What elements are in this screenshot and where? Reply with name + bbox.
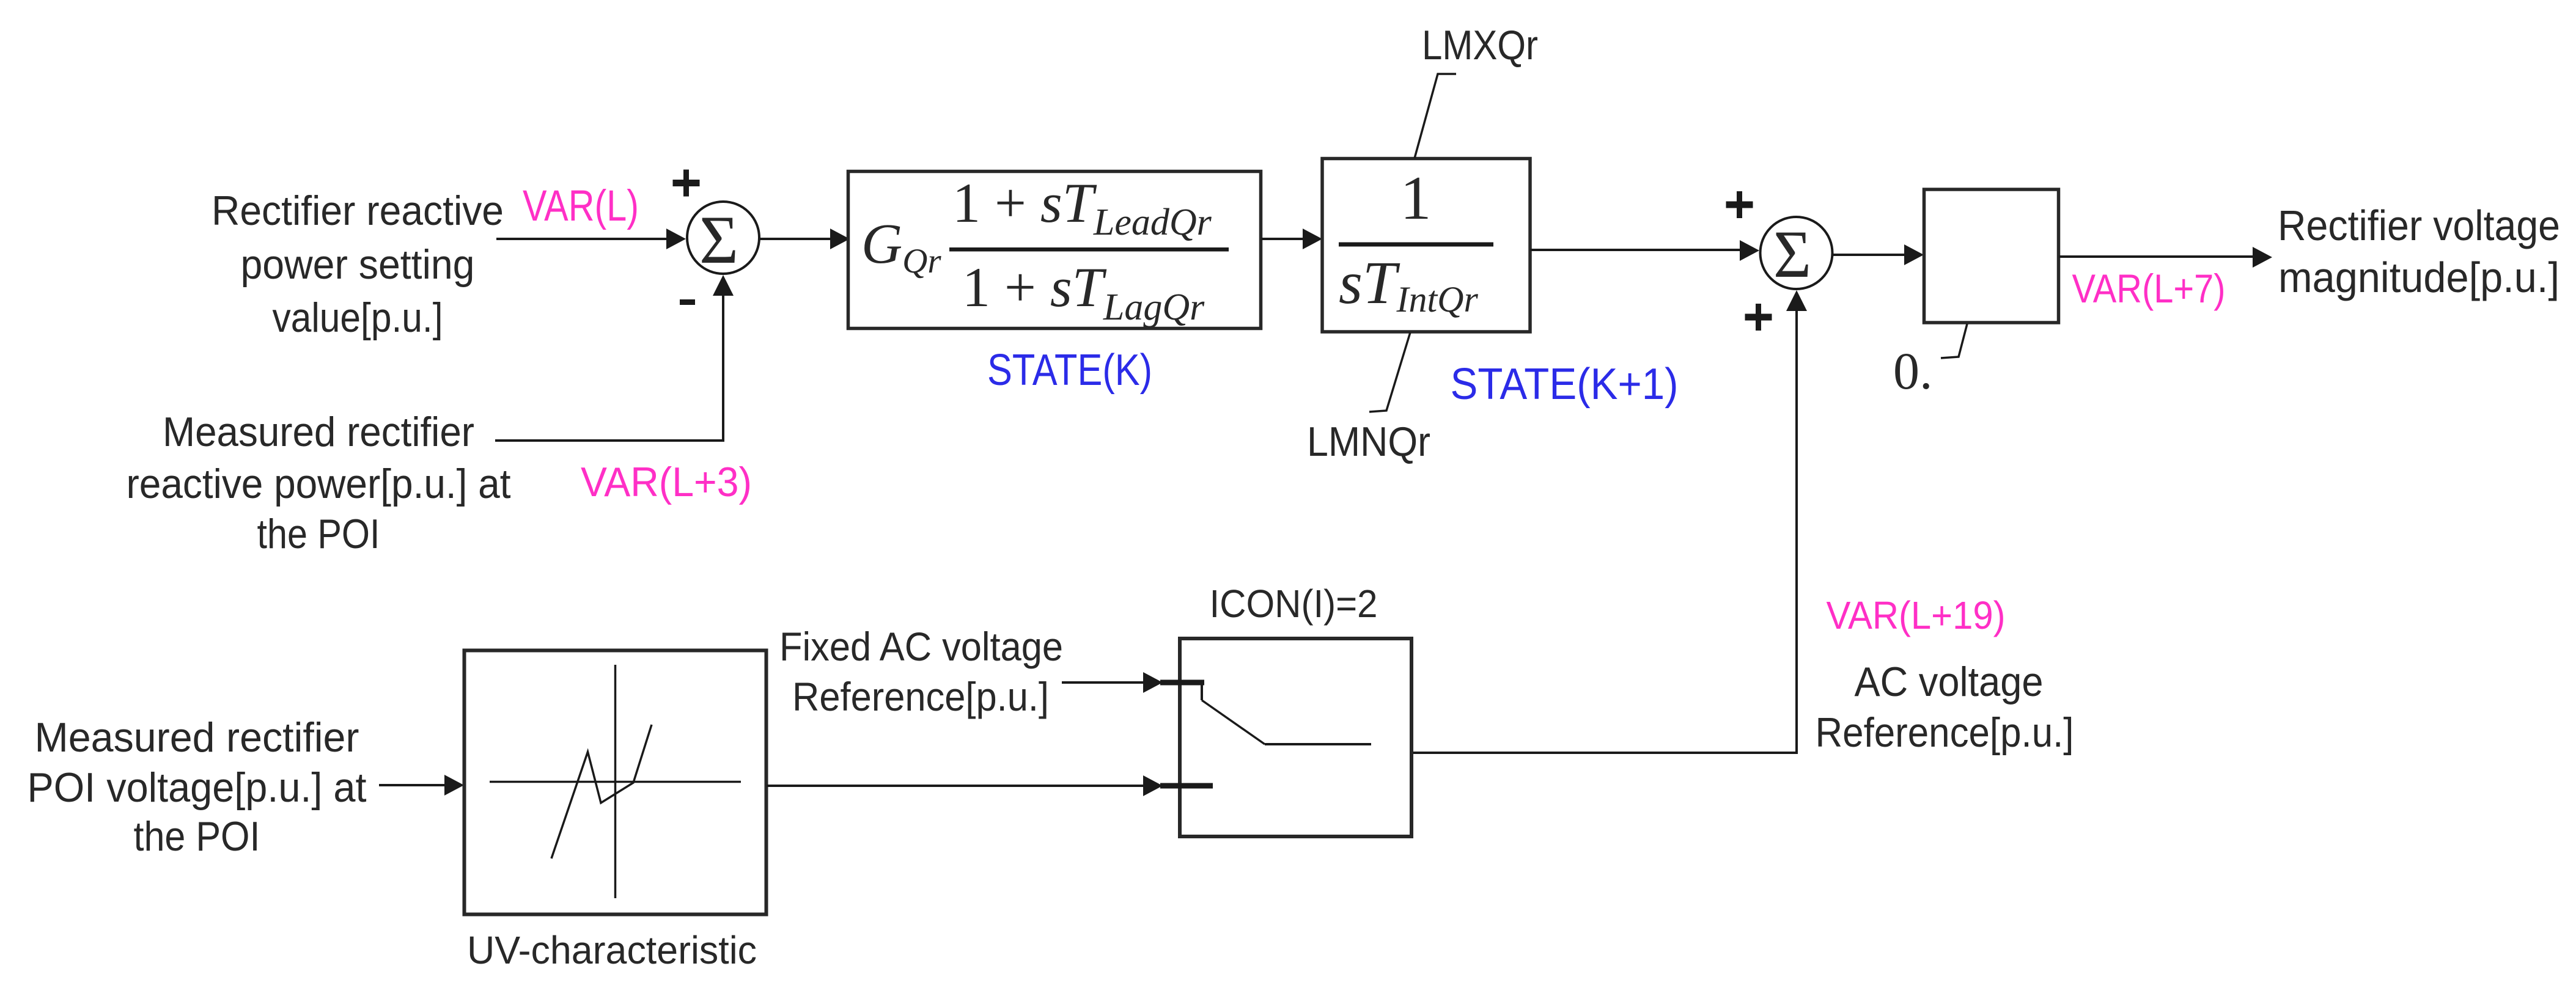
switch wiper diagonal <box>1202 700 1265 744</box>
block U4: UV-characteristic <box>465 651 767 915</box>
block U3: limiter (empty square) <box>1924 189 2059 323</box>
switch bottom input terminal (thick) <box>1160 783 1213 789</box>
wire: block U2 to summer S2 <box>1530 249 1741 251</box>
svg-text:Rectifier voltage: Rectifier voltage <box>2278 202 2560 249</box>
wire: measured reactive power feedback (L-shape into S1 bottom) <box>495 295 723 441</box>
label: Rectifier reactive power setting value[p.u.] <box>212 188 504 341</box>
summing junction S1 <box>687 202 759 274</box>
svg-text:0.: 0. <box>1893 342 1933 400</box>
summing junction S2 <box>1761 217 1833 289</box>
wire: UV output to switch bottom input <box>767 785 1144 787</box>
label: Fixed AC voltage Reference[p.u.] <box>779 624 1063 719</box>
plus sign at S2 left input <box>1726 191 1753 218</box>
svg-text:VAR(L+3): VAR(L+3) <box>581 459 752 505</box>
UV characteristic curve <box>551 725 652 858</box>
fraction bar <box>1339 243 1493 247</box>
svg-text:1: 1 <box>1400 164 1432 233</box>
wire: fixed reference into switch top input <box>1062 681 1144 684</box>
switch top input terminal (thick) <box>1160 680 1204 686</box>
svg-text:VAR(L+19): VAR(L+19) <box>1827 593 2006 637</box>
svg-text:VAR(L+7): VAR(L+7) <box>2072 266 2226 311</box>
UV graph vertical axis <box>614 665 617 898</box>
block U5: selector switch ICON(I)=2 <box>1180 639 1411 836</box>
svg-text:power setting: power setting <box>241 241 475 288</box>
svg-text:magnitude[p.u.]: magnitude[p.u.] <box>2278 254 2559 301</box>
minus sign at S1 bottom input <box>680 299 695 305</box>
switch terminal hook <box>1201 682 1203 700</box>
svg-text:VAR(L): VAR(L) <box>523 182 639 230</box>
wire: S2 output to limiter block <box>1833 254 1905 256</box>
plus sign at S1 top input <box>673 170 700 197</box>
svg-text:LMNQr: LMNQr <box>1307 419 1430 465</box>
wire: block U1 to block U2 <box>1261 238 1304 240</box>
svg-text:the POI: the POI <box>134 813 260 860</box>
svg-text:value[p.u.]: value[p.u.] <box>273 295 443 341</box>
plus sign at S2 bottom input <box>1745 304 1772 331</box>
svg-text:Measured rectifier: Measured rectifier <box>163 409 474 455</box>
wire: input Qref into summer S1 <box>496 238 668 240</box>
switch wiper horizontal <box>1265 743 1371 745</box>
svg-text:AC voltage: AC voltage <box>1855 659 2044 705</box>
label: AC voltage Reference[p.u.] <box>1816 659 2074 756</box>
svg-text:POI voltage[p.u.] at: POI voltage[p.u.] at <box>28 764 367 811</box>
wire: output to Rectifier voltage magnitude <box>2059 255 2254 258</box>
svg-text:the POI: the POI <box>257 511 380 557</box>
label: Measured rectifier reactive power[p.u.] at the POI <box>127 409 511 557</box>
wire: measured POI voltage into UV block <box>379 784 446 786</box>
block U2: integrator 1/sT_IntQr <box>1322 159 1530 332</box>
callout line LMXQr <box>1415 74 1456 158</box>
svg-text:Reference[p.u.]: Reference[p.u.] <box>1816 709 2074 756</box>
svg-text:Measured rectifier: Measured rectifier <box>35 714 359 761</box>
svg-text:reactive power[p.u.] at: reactive power[p.u.] at <box>127 461 511 507</box>
callout line LMNQr <box>1369 332 1410 412</box>
callout line for 0. <box>1941 324 1967 358</box>
UV graph horizontal axis <box>490 781 741 783</box>
svg-text:UV-characteristic: UV-characteristic <box>467 928 757 972</box>
label: Rectifier voltage magnitude[p.u.] <box>2278 202 2560 301</box>
svg-text:Reference[p.u.]: Reference[p.u.] <box>792 674 1049 719</box>
svg-text:LMXQr: LMXQr <box>1422 22 1538 68</box>
svg-text:Fixed AC voltage: Fixed AC voltage <box>779 624 1063 669</box>
label: Measured rectifier POI voltage[p.u.] at the POI <box>28 714 367 860</box>
svg-text:Σ: Σ <box>699 202 738 278</box>
fraction bar <box>949 247 1229 252</box>
wire: AC voltage reference up into S2 <box>1411 310 1797 753</box>
block U1: lead-lag transfer function <box>848 172 1261 329</box>
svg-text:Σ: Σ <box>1773 217 1811 291</box>
svg-text:STATE(K): STATE(K) <box>987 346 1152 395</box>
wire: S1 output to block G1 <box>759 238 831 240</box>
svg-text:Rectifier reactive: Rectifier reactive <box>212 188 504 234</box>
svg-text:ICON(I)=2: ICON(I)=2 <box>1210 582 1378 626</box>
svg-text:STATE(K+1): STATE(K+1) <box>1451 360 1679 409</box>
